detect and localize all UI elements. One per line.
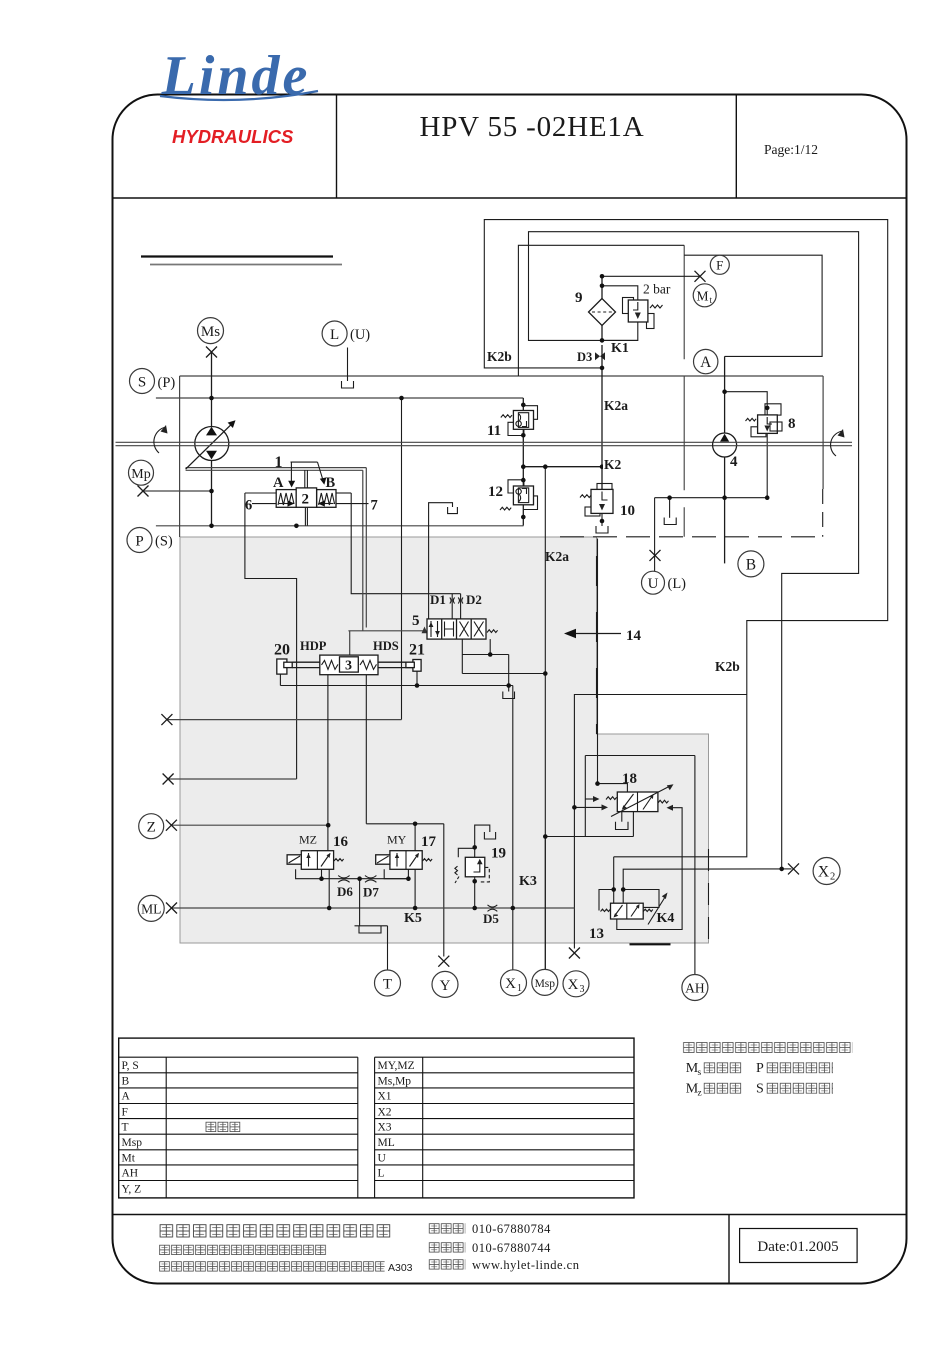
wire servo case drain rail <box>280 685 512 687</box>
wire AH drop <box>694 756 696 975</box>
footer fax <box>428 1242 465 1254</box>
svg-text:AH: AH <box>685 981 705 996</box>
wire U riser <box>654 498 656 572</box>
wire suction standpipe box <box>518 245 684 376</box>
svg-text:AH: AH <box>122 1168 139 1180</box>
header bottom divider <box>113 197 907 199</box>
wire K2a servo supply vertical <box>544 467 546 970</box>
wire valve2 port6 net to test rail <box>245 493 297 779</box>
pilot valve 13 K4 <box>611 903 644 919</box>
wire charge supply drop K2a/D3 <box>601 276 603 299</box>
wire D1 nozzle drop <box>451 594 453 619</box>
wire bracket20 drain drop <box>279 674 281 686</box>
wire valve13 right loop <box>623 890 659 908</box>
svg-text:1: 1 <box>517 983 522 994</box>
tank note in table <box>205 1121 241 1133</box>
orifice D3 <box>595 352 600 360</box>
wire valve13 out to valve18 pilot <box>617 808 682 930</box>
valve 10 <box>597 484 612 493</box>
svg-text:21: 21 <box>409 642 425 659</box>
wire K2a housing drop <box>597 539 599 784</box>
svg-text:12: 12 <box>488 484 503 500</box>
unit boundary dash tongue right edge <box>708 849 710 941</box>
wire Ms vertical upper <box>211 352 213 428</box>
svg-text:X: X <box>568 977 579 993</box>
svg-text:HDP: HDP <box>300 639 327 653</box>
svg-text:(L): (L) <box>668 576 687 592</box>
relief valve K1 <box>623 298 634 314</box>
svg-text:8: 8 <box>788 416 796 432</box>
svg-text:L: L <box>330 327 339 343</box>
svg-text:P, S: P, S <box>122 1060 139 1072</box>
wire K2b branch to X3 <box>574 695 746 949</box>
svg-text:U: U <box>378 1153 387 1165</box>
svg-text:K4: K4 <box>657 911 675 926</box>
nozzle D5 <box>488 905 498 912</box>
svg-text:10: 10 <box>620 503 635 519</box>
footer divider <box>113 1214 907 1216</box>
svg-text:B: B <box>122 1076 130 1088</box>
nozzle D2 <box>458 598 463 604</box>
tank under valve10 <box>596 526 608 533</box>
wire valve5 left cell vent to tank <box>429 503 453 619</box>
svg-text:F: F <box>122 1106 128 1118</box>
svg-text:ML: ML <box>378 1137 395 1149</box>
svg-text:MY,MZ: MY,MZ <box>378 1060 415 1072</box>
svg-text:18: 18 <box>622 771 637 787</box>
date box <box>740 1229 858 1263</box>
svg-text:16: 16 <box>333 834 349 850</box>
wire valve5 to Msp header <box>462 673 545 675</box>
svg-text:Msp: Msp <box>122 1137 143 1149</box>
svg-text:K2a: K2a <box>545 549 569 564</box>
svg-text:4: 4 <box>730 454 738 470</box>
svg-text:P: P <box>756 1061 764 1076</box>
svg-text:B: B <box>746 556 756 573</box>
footer web <box>428 1259 465 1271</box>
wire valve2 to valve5 pilot <box>351 493 460 594</box>
shaft through charge pump <box>713 441 737 443</box>
svg-text:D2: D2 <box>466 592 482 607</box>
svg-text:Y, Z: Y, Z <box>122 1183 142 1195</box>
pressure valve 19 <box>465 857 485 877</box>
wire Mp branch <box>143 490 212 492</box>
svg-text:ML: ML <box>141 901 161 916</box>
svg-text:A: A <box>273 475 284 491</box>
wire Mt branch <box>602 275 700 277</box>
port Ms <box>198 318 224 344</box>
wire K2 cross line <box>523 466 602 468</box>
svg-text:Y: Y <box>440 978 451 994</box>
svg-text:M: M <box>696 288 708 303</box>
port ML <box>138 895 164 921</box>
wire rail to valve11 <box>522 398 524 411</box>
connection table <box>119 1038 634 1198</box>
svg-text:F: F <box>716 258 723 273</box>
port T <box>375 970 401 996</box>
solenoid valve 17 MY <box>390 851 422 870</box>
wire feedback link lever to valve5 <box>186 467 367 469</box>
check valve D7 <box>365 876 376 883</box>
valve 12 <box>523 496 537 510</box>
wire K2b net: filter to top frame to right side <box>484 220 887 857</box>
svg-text:K2b: K2b <box>715 659 740 674</box>
tank at drain header <box>664 518 676 525</box>
wire X2 header to valve13 <box>623 869 782 903</box>
footer company line 3 <box>159 1261 385 1274</box>
wire Y port drop <box>443 824 445 957</box>
main pump 1 <box>195 427 229 461</box>
wire left frame vertical <box>179 376 181 537</box>
svg-text:Mt: Mt <box>122 1153 136 1165</box>
svg-text:2: 2 <box>302 492 310 508</box>
port Y <box>432 971 458 997</box>
svg-text:A: A <box>122 1091 131 1103</box>
tank at servo drain <box>503 692 515 699</box>
wire D6 D7 header <box>322 878 409 880</box>
svg-text:HYDRAULICS: HYDRAULICS <box>172 126 294 147</box>
charge pump 4 <box>713 433 737 457</box>
svg-text:Date:01.2005: Date:01.2005 <box>757 1239 838 1255</box>
wire L plug drop <box>347 348 349 382</box>
svg-text:7: 7 <box>371 498 378 514</box>
footer phone <box>428 1223 465 1235</box>
port 7 stub <box>336 503 369 505</box>
wire valve18 pilot box <box>584 756 586 837</box>
wire valve17 drain loop <box>384 869 408 878</box>
wire valve18 pilot arrow a <box>585 798 596 800</box>
svg-text:T: T <box>383 977 392 993</box>
svg-text:D6: D6 <box>337 884 353 899</box>
svg-text:Msp: Msp <box>535 978 556 990</box>
svg-text:3: 3 <box>345 659 352 674</box>
svg-text:X1: X1 <box>378 1091 392 1103</box>
nozzle D1 <box>450 598 455 604</box>
svg-text:D5: D5 <box>483 911 499 926</box>
unit boundary dash right upper <box>683 245 685 537</box>
footer company line 1 <box>159 1224 393 1239</box>
svg-text:B: B <box>326 475 336 491</box>
check valve D6 <box>338 876 349 883</box>
wire valve16 out drop <box>328 869 330 908</box>
wire HDP chamber drop to valve16 <box>327 675 329 851</box>
port Msp <box>532 969 558 995</box>
header divider 1 <box>336 95 338 199</box>
wire valve13 left loop <box>599 890 614 911</box>
wire valve5 drain left <box>461 639 463 673</box>
wire charge return net to X2 <box>529 232 859 869</box>
svg-text:K5: K5 <box>404 911 422 926</box>
wire D2 nozzle drop <box>460 594 462 619</box>
svg-text:13: 13 <box>589 926 604 942</box>
svg-text:K1: K1 <box>611 341 629 356</box>
rotation arrow left <box>154 427 166 453</box>
pilot valve 2 <box>276 490 296 508</box>
svg-text:X2: X2 <box>378 1106 392 1118</box>
wire valve18 feed from K2a <box>598 784 628 792</box>
wire K1 drain <box>602 322 638 340</box>
svg-text:z: z <box>698 1089 702 1099</box>
svg-text:s: s <box>698 1068 702 1078</box>
wire pump B drop to port B <box>724 457 726 563</box>
svg-text:U: U <box>648 576 659 592</box>
wire link to valve5 entry <box>348 630 424 632</box>
svg-text:K2b: K2b <box>487 349 512 364</box>
wire valve17 out drop K5 <box>414 869 416 908</box>
wire Z rail <box>171 824 328 826</box>
port X2 <box>813 858 840 885</box>
svg-text:9: 9 <box>575 290 583 306</box>
wire valve13 feed from K2b <box>613 857 615 903</box>
svg-text:K3: K3 <box>519 874 537 889</box>
svg-text:P: P <box>135 534 143 550</box>
svg-text:010-67880744: 010-67880744 <box>472 1241 551 1255</box>
valve 11 <box>523 406 537 420</box>
wire S suction rail <box>180 375 824 377</box>
port B <box>738 551 764 577</box>
wire P pressure rail <box>156 525 524 527</box>
wire Ms vertical lower <box>211 459 213 526</box>
port L <box>322 321 347 346</box>
wire X2 stub <box>782 868 792 870</box>
port X1 <box>501 970 527 996</box>
wire valve2 P feed <box>304 507 306 525</box>
servo cylinder 3 <box>320 655 378 675</box>
wire filter to drain <box>601 325 603 340</box>
wire valve16 drain loop <box>296 869 322 878</box>
svg-text:Mp: Mp <box>131 467 150 482</box>
svg-text:HPV 55 -02HE1A: HPV 55 -02HE1A <box>420 111 645 143</box>
svg-text:20: 20 <box>274 642 290 659</box>
svg-text:S: S <box>138 375 146 391</box>
tank plug under L <box>342 381 354 388</box>
svg-text:Ms: Ms <box>201 324 220 340</box>
wire valve18 pilot arrow b <box>574 806 604 808</box>
port AH <box>682 975 708 1001</box>
wire T port drop <box>387 926 389 970</box>
svg-text:2 bar: 2 bar <box>643 282 671 297</box>
wire valve17 feed drop <box>414 824 416 851</box>
svg-text:(U): (U) <box>350 327 370 343</box>
wire pump A riser <box>724 356 726 433</box>
port U <box>642 571 665 594</box>
wire valve19 top <box>475 825 490 857</box>
svg-text:(S): (S) <box>155 534 173 550</box>
port 6 stub <box>252 503 276 505</box>
page border frame <box>113 95 907 1284</box>
wire B side loop <box>684 255 822 356</box>
svg-text:17: 17 <box>421 834 437 850</box>
wire valve2 port7 drop <box>401 398 403 720</box>
svg-text:X3: X3 <box>378 1121 392 1133</box>
svg-text:www.hylet-linde.cn: www.hylet-linde.cn <box>472 1258 580 1272</box>
shaft through main pump <box>194 441 229 443</box>
svg-text:X: X <box>505 976 516 992</box>
wire charge line D3 to K2 <box>601 345 603 489</box>
wire Msp drop <box>544 837 546 970</box>
port Z <box>139 814 164 839</box>
wire HDS chamber drop <box>365 675 367 824</box>
tank under valve18 <box>621 812 623 822</box>
wire S rail right drop <box>822 376 824 489</box>
wire valve19 drain <box>474 877 476 908</box>
wire valve5 drain loop <box>462 654 508 656</box>
port X3 <box>563 971 589 997</box>
wire case drain header <box>655 497 768 499</box>
wire valve11 column <box>522 429 524 486</box>
arrow 14 pointer <box>567 633 621 635</box>
wire tank T branch <box>359 879 361 926</box>
svg-text:K2a: K2a <box>604 398 628 413</box>
plug X marks <box>138 271 800 967</box>
filter 9 <box>589 299 616 326</box>
tank T symbol <box>355 925 388 927</box>
svg-text:X: X <box>818 864 829 881</box>
svg-text:6: 6 <box>245 498 252 514</box>
title underline double <box>141 255 333 257</box>
wire valve19 side loop <box>458 848 474 857</box>
svg-text:1: 1 <box>275 454 283 471</box>
svg-text:HDS: HDS <box>373 639 399 653</box>
drive shaft double line <box>116 441 853 443</box>
port Mt <box>693 284 716 307</box>
svg-text:K2: K2 <box>604 457 622 472</box>
wire K1 feed <box>602 286 638 300</box>
rotation arrow right <box>831 431 843 456</box>
svg-text:2: 2 <box>830 872 835 883</box>
port A <box>694 349 718 373</box>
svg-text:19: 19 <box>491 846 506 862</box>
solenoid valve 16 MZ <box>301 851 333 870</box>
svg-text:11: 11 <box>487 423 501 439</box>
valve2 side chamber wires <box>245 492 276 494</box>
svg-text:(P): (P) <box>158 375 176 391</box>
wire K3 line <box>512 686 514 970</box>
svg-text:S: S <box>756 1082 764 1097</box>
unit boundary dash top <box>560 536 823 538</box>
wire valve8 drain <box>766 433 768 497</box>
wire test rail 2 <box>168 778 297 780</box>
proportional valve 5 <box>427 619 486 639</box>
wire Y header <box>366 823 444 825</box>
footer date cell divider <box>728 1215 730 1284</box>
footer company line 2 <box>159 1244 327 1257</box>
svg-text:D3: D3 <box>577 350 592 364</box>
svg-text:MY: MY <box>387 833 407 847</box>
svg-text:D7: D7 <box>363 885 379 900</box>
unit boundary dash at K1 drain <box>822 489 824 537</box>
wire valve10 drain <box>601 513 603 521</box>
svg-text:MZ: MZ <box>299 833 317 847</box>
pilot valve 18 <box>617 792 658 812</box>
svg-text:D1: D1 <box>430 592 446 607</box>
Linde logo <box>156 50 324 92</box>
port Mp <box>129 460 154 485</box>
wire valve8 pilot branch <box>725 392 768 415</box>
header divider 2 <box>735 95 737 199</box>
wire Msp to valve18 port <box>545 836 633 838</box>
svg-text:Page:1/12: Page:1/12 <box>764 142 818 157</box>
wire servo piston top tap <box>349 631 351 655</box>
wire test rail 1 <box>167 719 402 721</box>
wire drain tank stub <box>669 498 671 518</box>
wire valve12 to P rail <box>522 505 524 526</box>
pump housing shaded region <box>180 537 709 943</box>
svg-text:5: 5 <box>412 613 420 629</box>
wire bracket21 drain drop <box>416 671 418 685</box>
tank at valve5 vent <box>448 507 458 514</box>
unit boundary dash on housing right edge <box>596 556 598 734</box>
svg-text:T: T <box>122 1121 129 1133</box>
unit boundary dash tongue bottom <box>630 943 671 945</box>
svg-text:010-67880784: 010-67880784 <box>472 1222 551 1236</box>
port S <box>130 369 155 394</box>
valve 8 <box>765 404 781 415</box>
svg-text:A303: A303 <box>388 1262 413 1274</box>
svg-text:A: A <box>700 354 712 371</box>
svg-text:3: 3 <box>580 984 585 995</box>
wire ML rail <box>172 907 575 909</box>
svg-text:L: L <box>378 1168 385 1180</box>
svg-text:14: 14 <box>626 628 642 644</box>
wire Ms gauge rail <box>156 397 523 399</box>
svg-text:Z: Z <box>147 820 156 836</box>
port F <box>710 255 729 274</box>
svg-text:Ms,Mp: Ms,Mp <box>378 1076 412 1088</box>
rotation note line 1 <box>682 1041 852 1054</box>
port P <box>127 528 152 553</box>
